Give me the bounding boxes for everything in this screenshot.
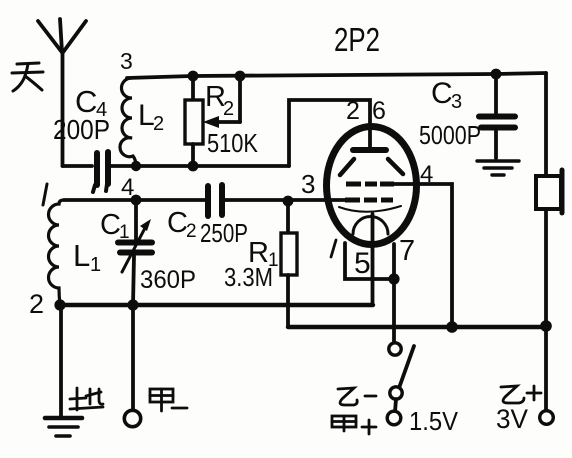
wire antenna to C4 <box>63 164 93 168</box>
switch arm <box>399 346 414 388</box>
tube 2P2 envelope <box>327 127 417 245</box>
pin 7 wire <box>392 244 396 343</box>
switch terminal circle top <box>389 343 401 355</box>
wire earphone to rail B <box>544 209 548 411</box>
svg-text:2P2: 2P2 <box>334 21 380 58</box>
pin 1 wire <box>345 243 394 279</box>
svg-text:360P: 360P <box>140 266 196 294</box>
junction C3 top <box>491 69 502 80</box>
svg-text:200P: 200P <box>53 114 110 145</box>
pin 5 wire <box>371 214 375 305</box>
ground symbol <box>45 418 82 436</box>
junction node 2 <box>54 299 65 310</box>
tube filament shelf curve <box>339 206 401 212</box>
resistor R1 <box>286 201 290 233</box>
capacitor C2 <box>208 185 222 216</box>
node 1 label (stroke) <box>43 184 47 205</box>
wire between 乙- and 甲+ circles <box>395 399 396 412</box>
wire C4 to node 4 <box>108 164 136 168</box>
svg-text:5: 5 <box>354 247 371 280</box>
right vertical wire from top rail <box>544 73 548 176</box>
tube grid row 2 (dashes, pin 3) <box>345 198 393 203</box>
antenna <box>38 19 86 166</box>
svg-text:3.3M: 3.3M <box>224 262 273 292</box>
junction pin4/rail B <box>446 321 458 333</box>
inductor L2 <box>120 78 136 166</box>
svg-text:5000P: 5000P <box>419 120 481 150</box>
tube right diagonal electrode <box>388 159 403 174</box>
tube grid row 1 (dashes, pin 4) <box>346 182 394 187</box>
resistor R2 (potentiometer) <box>191 76 195 100</box>
terminal circle 甲- <box>124 410 140 426</box>
甲- terminal wire <box>131 305 135 411</box>
junction grid/R1 <box>283 196 294 207</box>
junction wiper top <box>235 71 246 82</box>
label 乙- <box>338 388 376 405</box>
svg-text:250P: 250P <box>200 218 248 248</box>
wire rail bend up to tube pin 6 <box>289 100 370 166</box>
svg-text:C: C <box>167 207 188 239</box>
inductor L1 <box>49 200 65 305</box>
svg-text:2: 2 <box>346 97 360 125</box>
svg-text:2: 2 <box>223 98 234 120</box>
capacitor C4 <box>93 152 108 192</box>
svg-text:L: L <box>73 238 90 273</box>
label 乙+ <box>501 386 541 403</box>
svg-text:510K: 510K <box>207 128 259 158</box>
pin 3 wire (grid) <box>288 198 345 202</box>
label 天 (antenna) <box>12 63 43 91</box>
svg-text:3: 3 <box>120 48 133 74</box>
tube left diagonal electrode <box>340 159 354 175</box>
tube filament dome <box>353 217 388 235</box>
svg-text:2: 2 <box>153 113 164 135</box>
svg-text:1: 1 <box>90 254 101 276</box>
R2 wiper arrow <box>203 76 240 128</box>
svg-text:C: C <box>100 209 121 241</box>
top rail wire <box>127 73 546 78</box>
tube top grid bar (pins 2,6) <box>353 147 386 153</box>
svg-text:4: 4 <box>420 161 433 188</box>
rail B (B+ rail) <box>288 325 546 329</box>
pin 1 label (stroke) <box>331 240 336 257</box>
label 甲+ <box>332 416 376 434</box>
svg-text:3: 3 <box>451 91 462 113</box>
junction R2 bottom <box>188 161 199 172</box>
svg-text:3: 3 <box>301 169 315 199</box>
svg-text:C: C <box>431 77 453 110</box>
svg-text:2: 2 <box>186 221 197 242</box>
switch terminal circle 乙- <box>390 387 402 399</box>
label 甲- <box>150 389 187 411</box>
wire node1 to C2 <box>64 198 205 202</box>
rail A (ground rail) <box>60 303 373 307</box>
terminal circle 甲+ <box>387 411 401 425</box>
svg-text:7: 7 <box>399 235 415 267</box>
junction rail B right <box>540 320 552 332</box>
junction pins 1-7 <box>388 273 399 284</box>
battery terminal 乙+ <box>540 411 554 425</box>
junction node 4 (L2/C4/R2 rail) <box>131 161 141 171</box>
capacitor C3 <box>479 74 515 158</box>
label 地 <box>70 388 103 410</box>
svg-text:1.5V: 1.5V <box>409 406 459 436</box>
svg-text:2: 2 <box>29 289 44 319</box>
rail node4 to bend <box>136 164 289 168</box>
svg-text:1: 1 <box>119 222 130 243</box>
svg-text:3V: 3V <box>496 404 528 434</box>
ground under C3 <box>477 161 519 175</box>
junction R2 top <box>188 71 199 82</box>
junction C1 bottom <box>127 299 138 310</box>
earphone (transformer) <box>536 176 561 209</box>
svg-text:6: 6 <box>372 97 386 125</box>
junction C1 top <box>131 195 142 206</box>
capacitor C1 (variable) <box>118 200 152 305</box>
pin 4 wire (plate) <box>394 184 452 327</box>
ground wire from node 2 <box>59 305 63 416</box>
